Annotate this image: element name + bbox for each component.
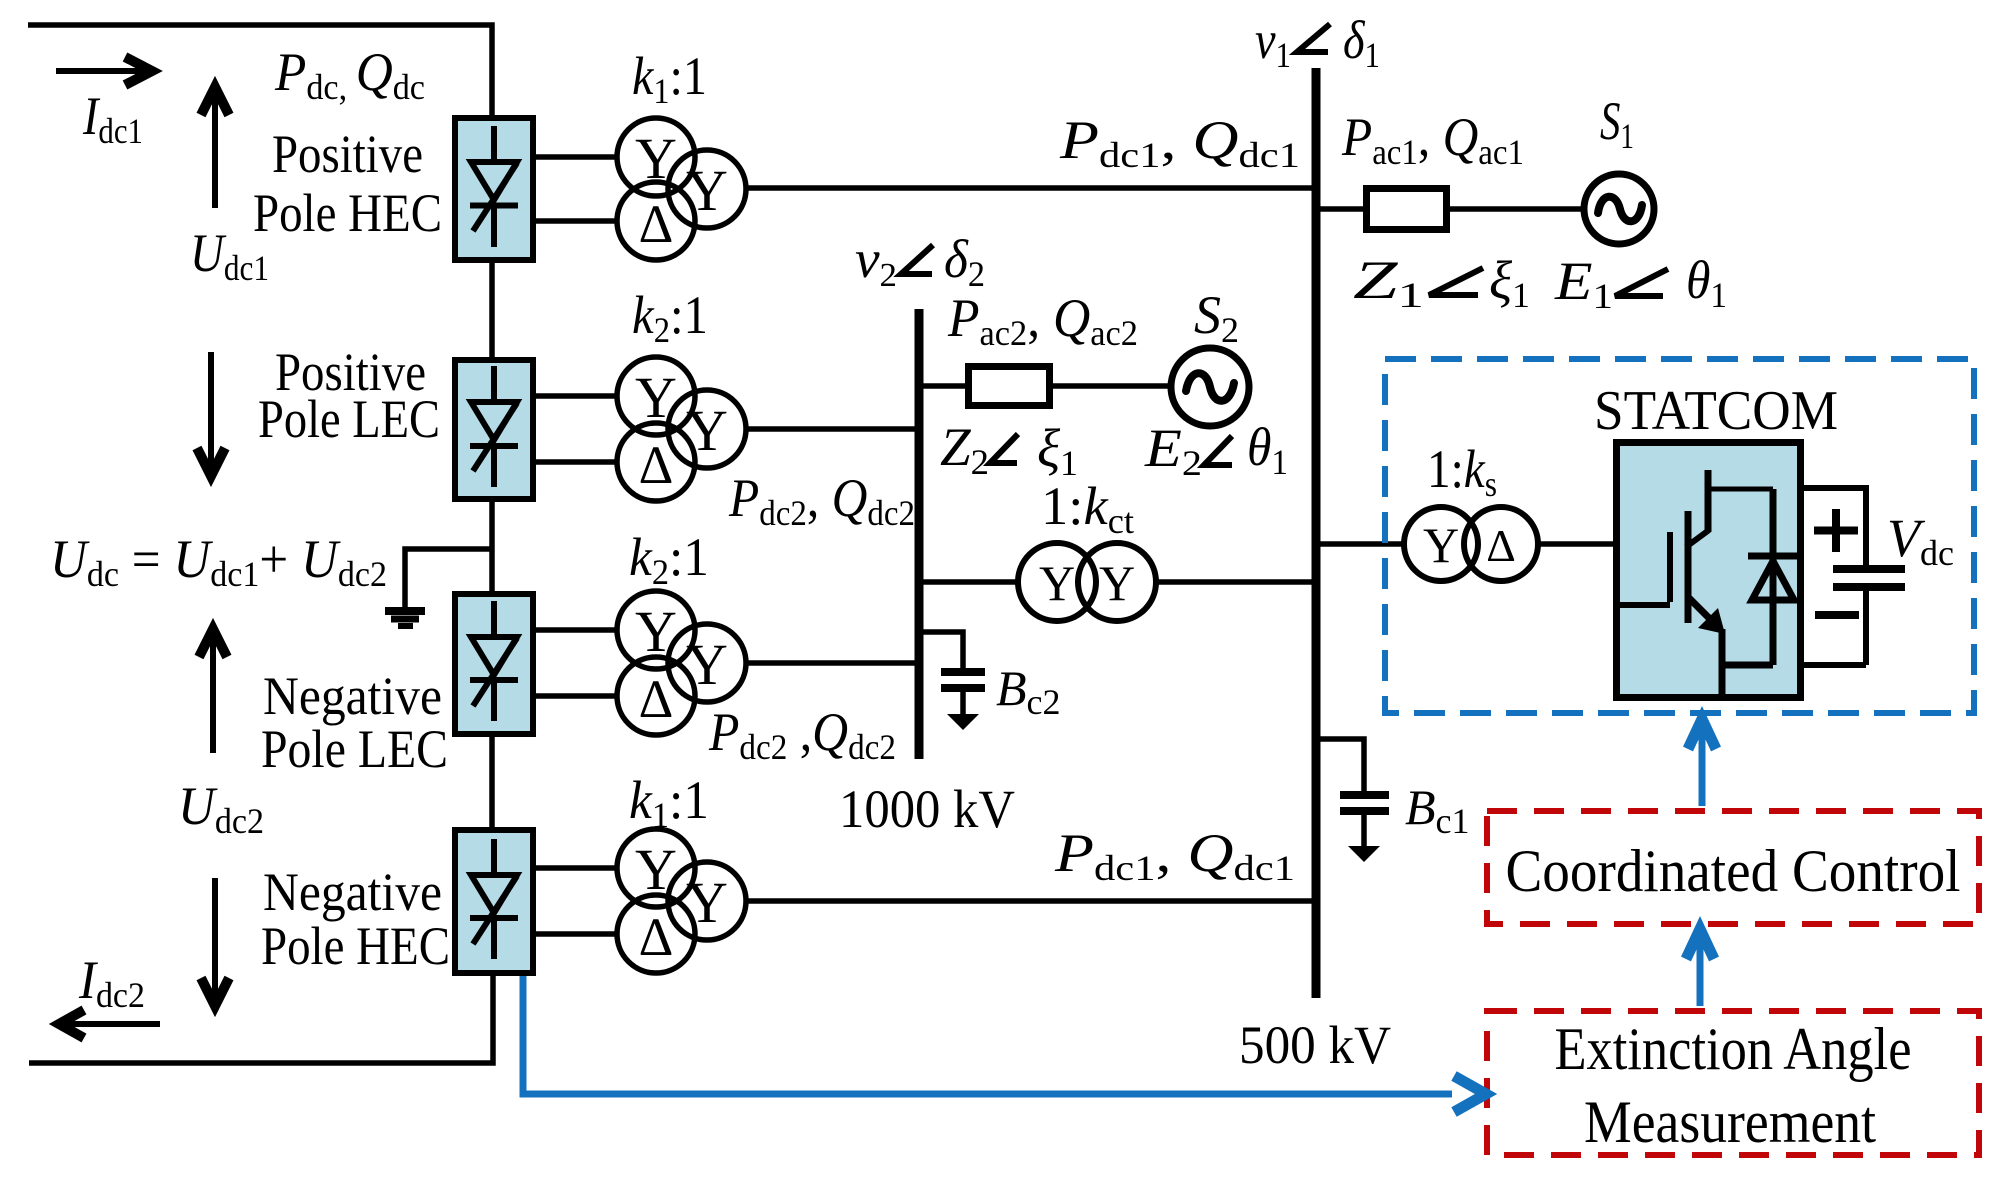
box Extinction Angle Measurement (red dashed) <box>1487 1011 1979 1155</box>
svg-text:k2:1: k2:1 <box>632 285 708 350</box>
box Coordinated Control (red dashed) <box>1487 811 1979 924</box>
svg-text:STATCOM: STATCOM <box>1594 380 1838 442</box>
wire transformer2 to bus v2 <box>745 426 915 432</box>
svg-text:k1:1: k1:1 <box>629 770 709 835</box>
svg-text:Y: Y <box>686 632 728 697</box>
svg-text:Y: Y <box>686 158 728 223</box>
arrow Idc2 (left) <box>64 1021 160 1027</box>
source S2 <box>1171 348 1249 426</box>
diode D1 <box>1748 489 1798 665</box>
angle in v2d2 <box>901 245 933 274</box>
converter Negative Pole LEC <box>455 594 533 734</box>
transformer T2 (k2:1) <box>617 357 746 501</box>
arrow into Extinction box (chevron) <box>1454 1076 1486 1112</box>
STATCOM dashed enclosure (blue) <box>1385 359 1974 713</box>
wire trunk c1-c2 <box>489 263 495 357</box>
wire ks transformer to STATCOM <box>1538 541 1613 547</box>
svg-text:Coordinated Control: Coordinated Control <box>1506 838 1961 904</box>
svg-text:Y: Y <box>635 599 677 664</box>
wire Z1 to S1 <box>1447 206 1584 212</box>
source S1 <box>1584 174 1654 244</box>
svg-text:Y: Y <box>686 870 728 935</box>
transformer T1 (k1:1) <box>617 118 746 260</box>
svg-text:Y: Y <box>686 398 728 463</box>
arrow Udc2 down <box>212 878 218 1002</box>
impedance Z1 <box>1367 189 1447 230</box>
converter Positive Pole LEC <box>455 360 533 499</box>
converter Positive Pole HEC <box>455 118 533 260</box>
wire transformer3 to bus v2 <box>745 660 915 666</box>
angle in v1d1 <box>1297 24 1330 52</box>
ground midpoint (tapered bars) <box>385 611 425 626</box>
svg-text:Y: Y <box>635 126 677 191</box>
wire bottom dc return <box>29 976 493 1063</box>
wire converter4 to transformer4 <box>536 868 617 934</box>
svg-text:k2:1: k2:1 <box>629 527 709 592</box>
wire bus v2 to Bc2 <box>919 632 963 668</box>
wire transformer1 to bus v1 <box>745 185 1312 191</box>
svg-text:Negative: Negative <box>263 666 442 726</box>
svg-text:500 kV: 500 kV <box>1239 1015 1391 1075</box>
transformer T4 (k1:1) <box>617 829 746 973</box>
svg-text:Y: Y <box>1099 555 1135 611</box>
ground Bc1 (arrow) <box>1348 846 1380 862</box>
wire Bc1 to ground <box>1361 812 1367 848</box>
angle in E2th1 <box>1204 436 1232 465</box>
wire bus v1 to ks transformer <box>1316 541 1404 547</box>
impedance Z2 <box>969 367 1050 406</box>
wire bus v2 to Z2 <box>919 383 968 389</box>
arrow Extinction to Coordinated <box>1697 940 1704 1006</box>
wire bus v2 to kct transformer <box>919 579 1018 585</box>
wire transformer4 to bus v1 <box>745 898 1312 904</box>
svg-text:Y: Y <box>635 837 677 902</box>
wire Z2 to S2 <box>1050 383 1174 389</box>
svg-text:1000 kV: 1000 kV <box>839 779 1015 839</box>
arrow Udc2 up <box>210 634 216 753</box>
svg-text:Pole LEC: Pole LEC <box>258 389 440 449</box>
bus v1 (500 kV) <box>1312 68 1321 998</box>
svg-text:Pole HEC: Pole HEC <box>253 183 442 243</box>
transformer 1:ks <box>1404 507 1538 581</box>
svg-text:Negative: Negative <box>263 862 442 922</box>
svg-text:Δ: Δ <box>639 669 674 729</box>
bus v2 (1000 kV) <box>915 309 924 759</box>
svg-text:Y: Y <box>1423 517 1459 573</box>
IGBT emitter arrowhead <box>1698 608 1725 634</box>
transformer T3 (k2:1) <box>617 591 746 735</box>
svg-text:Δ: Δ <box>639 194 674 254</box>
STATCOM converter box <box>1617 443 1801 698</box>
angle in Z1x1 <box>1429 268 1483 295</box>
wire gamma measurement (blue elbow) <box>523 976 1452 1094</box>
converter Negative Pole HEC <box>455 830 533 973</box>
capacitor Bc1 <box>1340 795 1389 811</box>
arrow Coordinated to STATCOM <box>1699 730 1706 806</box>
wire top dc feeder <box>28 25 492 115</box>
capacitor Bc2 <box>941 672 985 688</box>
angle in Z2x1 <box>990 434 1018 463</box>
svg-text:Δ: Δ <box>1486 520 1516 571</box>
svg-text:Δ: Δ <box>639 907 674 967</box>
wire midpoint ground branch <box>405 549 494 608</box>
wire bus v1 to Bc1 <box>1316 739 1364 791</box>
svg-text:k1:1: k1:1 <box>632 46 707 111</box>
svg-text:Y: Y <box>635 365 677 430</box>
wire kct transformer to bus v1 <box>1156 579 1312 585</box>
wire trunk c3-c4 <box>489 737 495 827</box>
svg-text:Δ: Δ <box>639 435 674 495</box>
svg-text:Positive: Positive <box>272 124 423 184</box>
wire converter2 to transformer2 <box>536 396 617 462</box>
svg-text:Pole LEC: Pole LEC <box>261 719 448 779</box>
svg-text:Pole HEC: Pole HEC <box>261 916 450 976</box>
arrow Idc1 (right) <box>56 68 146 74</box>
ground Bc2 (arrow) <box>947 714 979 730</box>
wire converter1 to transformer1 <box>536 157 617 221</box>
svg-text:Measurement: Measurement <box>1584 1089 1876 1155</box>
arrow Udc1 down <box>208 352 214 472</box>
svg-text:Extinction Angle: Extinction Angle <box>1555 1016 1912 1082</box>
arrow Udc1 up <box>212 92 218 208</box>
angle in E1th1 <box>1615 269 1668 296</box>
transformer 1:kct <box>1018 543 1156 621</box>
IGBT Q1 <box>1617 470 1773 694</box>
wire Bc2 to ground <box>960 692 966 716</box>
wire trunk c2-c3 <box>489 502 495 591</box>
wire bus v1 to Z1 <box>1316 206 1367 212</box>
capacitor Vdc <box>1801 488 1905 665</box>
svg-text:Y: Y <box>1039 555 1075 611</box>
wire converter3 to transformer3 <box>536 630 617 696</box>
